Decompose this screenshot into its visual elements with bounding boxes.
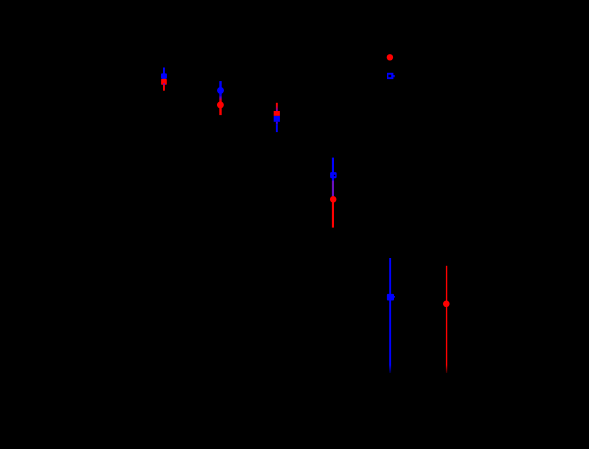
point A overlap blob [163, 83, 165, 85]
point A red errorbar [163, 79, 165, 91]
point F blue marker right tick [393, 296, 396, 298]
point E blue hollow square marker [387, 73, 393, 79]
point F blue errorbar fade end [389, 365, 391, 373]
point B blue errorbar [219, 81, 221, 95]
point F long blue errorbar [389, 258, 391, 365]
point D red errorbar [332, 196, 334, 227]
point D overlap segment [332, 181, 334, 197]
point B red errorbar [219, 101, 221, 116]
point E red marker [387, 54, 393, 60]
point D blue marker [330, 172, 337, 178]
point G long red errorbar [446, 266, 447, 365]
point E blue marker right tick [393, 75, 394, 77]
point D red marker [330, 196, 337, 203]
point B red marker [217, 101, 224, 108]
point D blue errorbar [332, 158, 334, 181]
point G red marker [443, 301, 450, 308]
point C red marker [274, 111, 280, 116]
point D blue marker hole [334, 175, 335, 176]
point C blue errorbar bottom [276, 125, 278, 132]
point A blue marker [161, 73, 167, 79]
point A red marker [161, 79, 167, 85]
point F blue marker [387, 294, 394, 301]
point C overlap upper [276, 106, 278, 112]
point G red errorbar fade end [446, 365, 447, 373]
point C blue marker [274, 116, 280, 122]
point E blue marker hole [388, 75, 391, 78]
point B blue marker [217, 87, 224, 94]
point A blue errorbar [163, 68, 165, 86]
point B overlap segment [219, 95, 221, 101]
point C overlap lower [276, 122, 278, 125]
point C red errorbar top [276, 103, 278, 106]
